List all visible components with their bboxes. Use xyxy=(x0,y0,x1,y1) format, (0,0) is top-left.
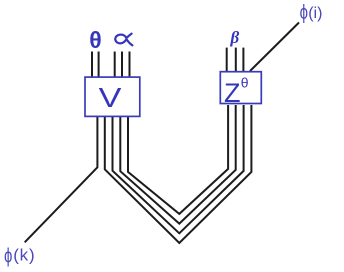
wire: input line 4 above V (index alpha) xyxy=(121,52,123,77)
svg-text:V: V xyxy=(99,82,122,113)
wire: bundle wire 2 from V to Z xyxy=(120,105,235,224)
svg-text:β: β xyxy=(230,28,240,47)
wire: bundle wire 1 from V to Z xyxy=(113,105,244,233)
index label alpha (proportional-like glyph) xyxy=(115,34,132,46)
wire: line 1 above Z (index beta) xyxy=(226,48,228,72)
wire: bundle wire 0 (outermost V) from V to Z xyxy=(105,105,252,243)
wire: input line 1 above V (index theta) xyxy=(91,52,93,77)
svg-text:(i): (i) xyxy=(308,5,322,22)
wire: left output of V going to phi(k) xyxy=(25,116,98,242)
svg-text:θ: θ xyxy=(241,75,249,91)
wire: input line 5 above V (index alpha) xyxy=(129,52,131,77)
gate box Z xyxy=(220,72,261,104)
svg-text:θ: θ xyxy=(89,27,101,53)
svg-text:ϕ: ϕ xyxy=(300,1,308,24)
wire: line 3 above Z (index beta) xyxy=(242,48,244,72)
svg-text:Z: Z xyxy=(224,78,241,108)
gate box V xyxy=(85,77,140,116)
wire: bundle wire 3 (innermost V) from V to Z xyxy=(128,105,228,214)
wire: input line 3 above V (index alpha) xyxy=(114,52,116,77)
wire: line 2 above Z (index beta) xyxy=(235,48,237,72)
svg-text:ϕ: ϕ xyxy=(4,244,12,267)
wire: input line 2 above V (index theta) xyxy=(98,52,100,77)
svg-text:(k): (k) xyxy=(13,246,35,265)
wire: diagonal from Z top-right to phi(i) xyxy=(250,23,299,72)
